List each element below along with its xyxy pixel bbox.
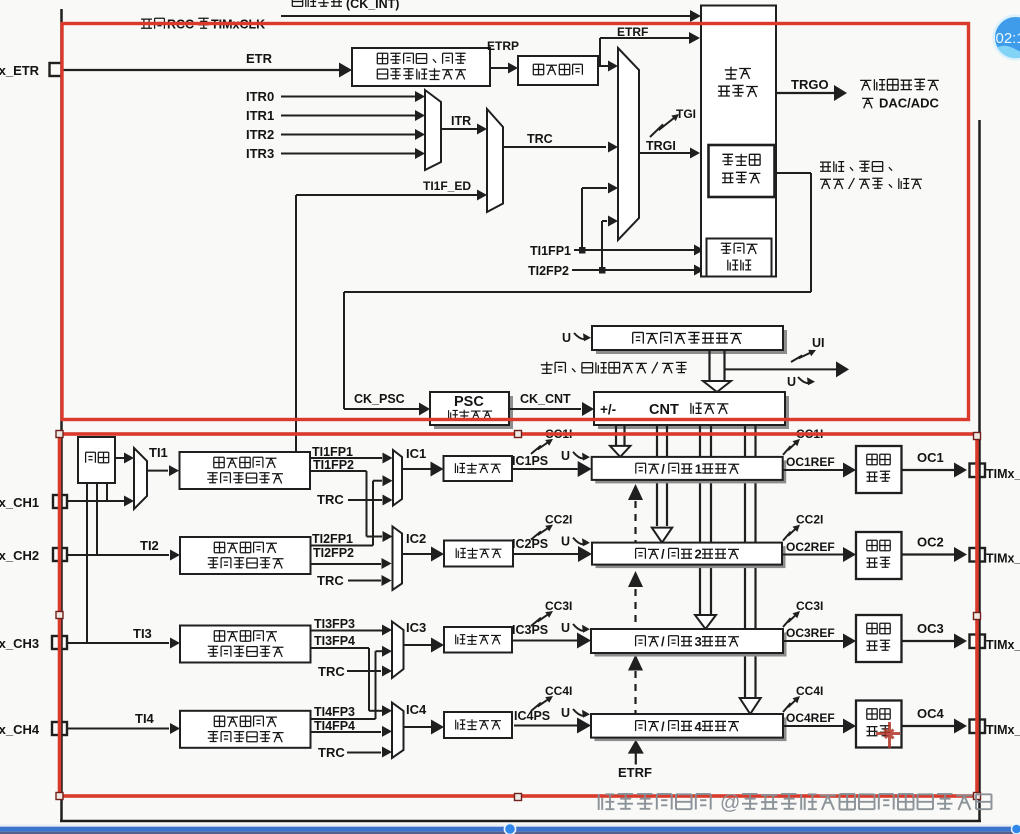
wire TI2FP1 crossover: [310, 545, 373, 547]
svg-text:IC2PS: IC2PS: [512, 537, 548, 551]
wire ETRF to capture4: [635, 753, 637, 765]
svg-text:TI3: TI3: [133, 626, 152, 641]
wire CK_CNT: [509, 408, 581, 410]
wire OC1: [902, 469, 955, 471]
svg-text:ITR: ITR: [451, 114, 471, 128]
wire OC4REF: [783, 725, 843, 727]
wire TRC ch1: [348, 499, 382, 501]
wire TRC ch4: [347, 752, 381, 754]
svg-text:IC3: IC3: [406, 620, 426, 635]
box output control 2: [856, 532, 902, 579]
wire TI4: [67, 728, 169, 730]
wire ITR2: [281, 134, 415, 136]
wire TI3FP4 crossover: [310, 647, 369, 649]
svg-text:U: U: [561, 621, 570, 635]
diagram border right: [978, 120, 981, 821]
box input filter: [518, 56, 598, 85]
svg-text:TRC: TRC: [317, 492, 344, 507]
svg-text:TIMx_: TIMx_: [986, 467, 1020, 481]
wire IC4PS: [514, 725, 577, 727]
red annotation rect top: [62, 24, 969, 420]
wire CH1: [67, 500, 124, 502]
box input filter & edge detector ch2: [180, 537, 311, 574]
wire TI4FP4 to mux: [310, 731, 381, 733]
label stop/clear/updown: [541, 362, 647, 374]
svg-text:CC2I: CC2I: [545, 513, 572, 527]
box capture/compare register 4: [595, 718, 787, 742]
svg-text:IC1PS: IC1PS: [512, 454, 548, 468]
wire TRGO: [776, 92, 834, 94]
svg-text:ITR1: ITR1: [246, 108, 274, 123]
box input filter & edge detector ch3: [180, 626, 311, 663]
box capture/compare register 1: [595, 460, 786, 483]
svg-text:TI4: TI4: [135, 711, 155, 726]
label CK_INT (clipped): [292, 0, 342, 7]
wire IC2PS: [512, 553, 578, 555]
wire OC2: [902, 553, 955, 555]
wire IC1PS: [512, 468, 578, 470]
svg-text:TI2FP2: TI2FP2: [313, 546, 354, 560]
svg-text:DAC/ADC: DAC/ADC: [879, 96, 940, 111]
progress dot: [504, 823, 515, 834]
wire TI2FP2 branch to mux: [601, 221, 603, 270]
event CC3I left: [531, 613, 550, 626]
wire ITR0: [281, 96, 415, 98]
wire IC1: [402, 468, 432, 470]
event CC2I right: [783, 527, 798, 541]
svg-text:TI1FP2: TI1FP2: [313, 458, 354, 472]
svg-text:IC1: IC1: [406, 446, 426, 461]
svg-text:TI3FP3: TI3FP3: [314, 617, 355, 631]
wire ETR: [62, 69, 341, 71]
svg-text:TI4FP3: TI4FP3: [314, 705, 355, 719]
box auto-reload register: [596, 330, 787, 354]
svg-text:IC2: IC2: [406, 531, 426, 546]
box input filter & edge detector ch1: [180, 452, 311, 489]
svg-text:Ix_CH1: Ix_CH1: [0, 495, 39, 510]
svg-text:/: /: [661, 634, 665, 649]
box PSC prescaler: [434, 396, 513, 429]
box polarity/edge-detect/prescaler: [352, 48, 490, 86]
svg-text:TI1F_ED: TI1F_ED: [423, 179, 471, 193]
svg-text:U: U: [561, 449, 570, 463]
svg-text:ITR2: ITR2: [246, 127, 274, 142]
box prescaler IC3: [444, 627, 512, 653]
svg-text:IC4: IC4: [406, 702, 427, 717]
wire OC3REF: [783, 640, 843, 642]
wire TI2FP2 to mux: [310, 563, 381, 565]
svg-text:OC4REF: OC4REF: [786, 711, 835, 725]
svg-text:OC1: OC1: [917, 450, 944, 465]
wire TI1FP1: [574, 249, 695, 251]
box output control 3: [856, 615, 902, 662]
wire TI1FP2 crossover: [310, 470, 367, 472]
port TIMx_CH1 right: [970, 464, 986, 478]
svg-text:PSC: PSC: [454, 394, 484, 410]
svg-text:/: /: [661, 719, 665, 734]
svg-text:CC3I: CC3I: [545, 599, 572, 613]
pipe CNT to capture4: [744, 425, 746, 698]
svg-text:CC3I: CC3I: [796, 599, 823, 613]
svg-text:TRC: TRC: [527, 132, 553, 146]
wire TI1F_ED: [295, 195, 297, 452]
svg-text:TRGO: TRGO: [791, 77, 829, 92]
box output control 4: [856, 701, 902, 748]
svg-text:Ix_CH4: Ix_CH4: [0, 722, 40, 737]
svg-text:CC4I: CC4I: [796, 684, 823, 698]
watermark juejin: [599, 792, 992, 814]
svg-text:OC2: OC2: [917, 535, 944, 550]
wire OC3: [902, 640, 955, 642]
svg-text:TRC: TRC: [318, 745, 345, 760]
svg-text:Ix_ETR: Ix_ETR: [0, 63, 40, 78]
pipe CNT to capture2: [656, 425, 658, 527]
mux trigger source: [618, 48, 639, 240]
svg-text:TI3FP4: TI3FP4: [314, 634, 355, 648]
wire IC4: [404, 726, 433, 728]
svg-text:TI4FP4: TI4FP4: [314, 719, 355, 733]
svg-text:UI: UI: [812, 336, 825, 350]
svg-text:@: @: [720, 792, 740, 814]
svg-text:+/-: +/-: [600, 402, 616, 417]
svg-text:02:1: 02:1: [996, 30, 1020, 47]
box prescaler IC4: [444, 712, 512, 738]
progress dot right: [1012, 824, 1020, 834]
mux ITR select: [425, 90, 441, 170]
box capture/compare register 3: [595, 633, 787, 657]
svg-text:ETRF: ETRF: [618, 765, 652, 780]
svg-text:TRC: TRC: [318, 664, 345, 679]
svg-text:Ix_CH3: Ix_CH3: [0, 636, 39, 651]
svg-text:IC3PS: IC3PS: [512, 623, 548, 637]
svg-text:TGI: TGI: [676, 107, 696, 121]
svg-text:TI2: TI2: [140, 538, 159, 553]
svg-text:(CK_INT): (CK_INT): [346, 0, 399, 11]
wire TI1FP1 to mux: [310, 457, 382, 459]
event CC1I right: [783, 441, 798, 455]
dashed arrow capture4 to capture3: [634, 671, 636, 714]
svg-text:OC4: OC4: [917, 706, 945, 721]
wire TRC ch2: [348, 580, 381, 582]
svg-text:OC2REF: OC2REF: [786, 540, 835, 554]
wire TI4FP3 crossover: [310, 718, 376, 720]
event CC4I right: [783, 698, 798, 712]
wire ITR1: [281, 115, 415, 117]
red annotation handles: [56, 431, 63, 438]
svg-text:CK_CNT: CK_CNT: [520, 392, 571, 406]
wire CK_INT: [281, 15, 692, 17]
wire ETRP: [490, 67, 508, 69]
svg-text:U: U: [561, 706, 570, 720]
svg-text:TRGI: TRGI: [646, 139, 676, 153]
wire filter to mux: [598, 65, 608, 67]
red annotation rect bottom: [60, 434, 978, 796]
box prescaler IC2: [444, 541, 513, 567]
wire XOR output: [115, 457, 124, 459]
event CC3I right: [783, 613, 798, 627]
diagram border left: [60, 9, 63, 822]
svg-text:ETRP: ETRP: [487, 39, 519, 53]
wire IC3PS: [512, 640, 577, 642]
mux IC1 select: [393, 450, 402, 506]
svg-text:U: U: [561, 535, 570, 549]
box output control 1: [856, 446, 902, 493]
wire IC3: [404, 644, 433, 646]
svg-text:4: 4: [695, 719, 703, 734]
box XOR: [78, 437, 115, 483]
svg-text:U: U: [562, 331, 571, 345]
svg-text:TI2FP2: TI2FP2: [528, 264, 569, 278]
wire TI1FP1 branch to mux: [581, 188, 583, 250]
wire OC1REF: [783, 469, 843, 471]
box slave mode controller: [709, 145, 775, 197]
svg-text:U: U: [787, 375, 796, 389]
svg-text:TI1FP1: TI1FP1: [312, 445, 353, 459]
svg-text:3: 3: [695, 634, 702, 649]
svg-text:TIMx_: TIMx_: [986, 638, 1020, 652]
event CC2I left: [531, 526, 550, 539]
svg-text:TIMx_: TIMx_: [986, 723, 1020, 737]
svg-text:ITR0: ITR0: [246, 89, 274, 104]
svg-text:CK_PSC: CK_PSC: [354, 392, 405, 406]
svg-text:ITR3: ITR3: [246, 146, 274, 161]
box trigger controller: [701, 6, 776, 277]
label reset/enable/updown/count: [820, 161, 892, 172]
svg-text:TRC: TRC: [317, 573, 344, 588]
svg-text:CNT: CNT: [649, 402, 679, 418]
mux IC4 select: [392, 703, 404, 758]
wire TI3: [67, 642, 169, 644]
svg-text:Ix_CH2: Ix_CH2: [0, 548, 39, 563]
box encoder interface: [707, 239, 772, 277]
wire TRC to trigger mux: [503, 146, 606, 148]
wire TI2FP2: [572, 269, 695, 271]
diagram border bottom: [60, 820, 981, 823]
mux IC2 select: [393, 527, 403, 591]
mux TI1 source: [134, 448, 147, 509]
svg-text:ETR: ETR: [246, 51, 273, 66]
wire TRGI: [639, 152, 690, 154]
wire ITR: [441, 128, 477, 130]
wire TRC ch3: [347, 670, 381, 672]
label from-RCC TIMxCLK: [141, 18, 164, 28]
box CNT counter: [598, 396, 789, 429]
wire slave-mode to CK_PSC: [775, 172, 811, 174]
svg-text:ETRF: ETRF: [617, 25, 648, 39]
svg-text:TIMx_: TIMx_: [986, 552, 1020, 566]
svg-text:1: 1: [695, 461, 702, 476]
svg-text:/: /: [661, 547, 665, 562]
wire TI2: [67, 554, 169, 556]
port TIMx_CH2 right: [970, 548, 986, 562]
pipe CNT to capture3: [699, 425, 701, 615]
svg-text:2: 2: [695, 547, 702, 562]
svg-text:OC1REF: OC1REF: [786, 455, 835, 469]
wire OC4: [902, 725, 955, 727]
mux TRC select: [487, 109, 503, 212]
wire TI1: [147, 470, 168, 472]
wire TI1FP2 into mux2: [367, 536, 383, 538]
wire IC2: [402, 553, 432, 555]
label to other timers: [860, 79, 939, 90]
event UI: [725, 368, 837, 370]
svg-text:OC3REF: OC3REF: [786, 626, 835, 640]
box prescaler IC1: [444, 456, 513, 481]
svg-text:TI1: TI1: [149, 445, 168, 460]
svg-text:TI1FP1: TI1FP1: [530, 244, 571, 258]
wire XOR taps: [106, 483, 108, 501]
mux IC3 select: [392, 622, 404, 679]
box capture/compare register 2: [596, 546, 786, 568]
dashed arrow capture2 to capture1: [634, 501, 636, 543]
pipe auto-reload to CNT: [708, 350, 710, 381]
event CC4I left: [531, 698, 550, 711]
video progress bar: [0, 825, 1020, 827]
wire OC2REF: [783, 554, 843, 556]
svg-text:CC2I: CC2I: [796, 513, 823, 527]
event TGI: [650, 117, 676, 137]
wire TI3FP3 to mux: [310, 630, 382, 632]
svg-text:OC3: OC3: [917, 621, 944, 636]
port TIMx_CH4 right: [970, 720, 986, 734]
box input filter & edge detector ch4: [180, 711, 311, 748]
event CC1I left: [531, 441, 550, 454]
pipe CNT to capture1: [615, 425, 617, 447]
svg-text:/: /: [661, 461, 665, 476]
red scribble on output control 4: [876, 722, 900, 748]
port TIMx_CH3 right: [970, 635, 986, 649]
wire ITR3: [281, 153, 415, 155]
wire ETRF: [599, 38, 601, 66]
dashed arrow capture3 to capture2: [634, 589, 636, 629]
svg-text:CC4I: CC4I: [545, 684, 572, 698]
svg-text:TI2FP1: TI2FP1: [312, 532, 353, 546]
